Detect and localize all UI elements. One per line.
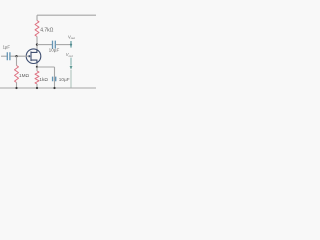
wire: input cap to transistor base <box>10 55 28 57</box>
wire: emitter node right to bypass branch <box>37 66 55 68</box>
resistor R1 4.7k collector resistor <box>35 21 39 37</box>
node: emitter junction dot <box>36 66 38 68</box>
resistor R3 1k emitter <box>35 71 39 84</box>
wire: bottom ground rail <box>0 87 96 89</box>
svg-text:Vout: Vout <box>66 52 73 58</box>
node: ground junction dot R3 <box>36 87 38 89</box>
wire: vertical from top rail corner down to R1 <box>36 15 38 20</box>
node: ground junction dot bypass <box>53 87 55 89</box>
svg-text:Vout: Vout <box>68 34 75 40</box>
voltage arrow shaft mid segment <box>70 58 72 66</box>
transistor Q1 <box>26 49 41 64</box>
voltage arrow head <box>70 66 73 70</box>
wire: emitter node to R3 <box>36 67 38 71</box>
wire: top supply rail <box>37 14 96 16</box>
wire: R1 bottom to collector node and into transistor <box>36 37 38 50</box>
svg-text:10µF: 10µF <box>59 77 70 82</box>
wire: output wire from collector node to coupling cap <box>37 44 52 46</box>
transistor collector lead inside <box>31 49 37 52</box>
transistor base bar <box>30 51 32 61</box>
wire: base node down to R2 <box>16 56 18 65</box>
node: base junction dot <box>15 55 17 57</box>
transistor emitter lead inside <box>31 60 37 63</box>
background paper <box>0 0 96 96</box>
wire: coupling cap to output terminal <box>56 44 71 46</box>
node: output terminal dot <box>70 44 72 46</box>
wire: input lead from left edge <box>1 55 7 57</box>
wire: bypass branch vertical down to ground rail <box>54 67 56 88</box>
svg-text:10µF: 10µF <box>49 48 60 53</box>
svg-text:1MΩ: 1MΩ <box>19 73 30 78</box>
voltage arrow Vout upper segment <box>70 41 72 48</box>
wire: R3 bottom to ground rail <box>36 84 38 88</box>
resistor R2 1M base bias <box>15 66 19 83</box>
capacitor C3 10uF bypass <box>53 77 56 82</box>
transistor base contact dot <box>28 55 30 57</box>
capacitor C1 1uF input coupling <box>7 52 10 60</box>
svg-text:1µF: 1µF <box>3 45 11 50</box>
capacitor C2 10uF coupling <box>53 41 56 49</box>
wire: emitter down from transistor <box>36 63 38 67</box>
svg-text:4.7kΩ: 4.7kΩ <box>40 28 53 34</box>
node: ground junction dot R2 <box>15 87 17 89</box>
wire: R2 bottom to ground rail <box>16 83 18 89</box>
transistor body circle <box>26 49 41 64</box>
node: collector junction dot <box>36 43 38 45</box>
svg-text:1kΩ: 1kΩ <box>39 77 48 82</box>
voltage arrow thin lower line to ground rail <box>70 70 72 88</box>
